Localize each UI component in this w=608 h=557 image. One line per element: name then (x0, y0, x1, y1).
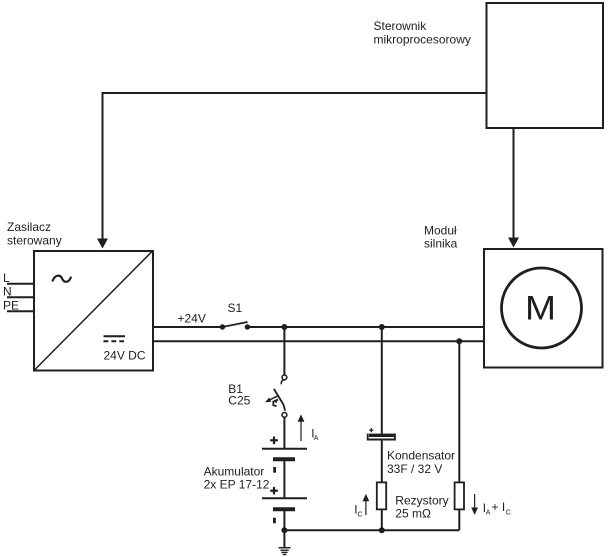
junction: left resistor / ground rail (379, 527, 385, 533)
svg-text:M: M (525, 289, 556, 327)
svg-text:2x EP 17-12: 2x EP 17-12 (204, 478, 270, 492)
wire: controller to power supply, horizontal segment (102, 92, 488, 94)
wire: controller to motor module, vertical segment with arrowhead (508, 128, 519, 248)
pin L with terminal line (3, 271, 35, 285)
svg-text:25 mΩ: 25 mΩ (395, 506, 431, 520)
label: Modul silnika (424, 224, 458, 251)
breaker B1 (C25) (265, 375, 287, 417)
junction: +24V rail / breaker branch (281, 324, 287, 330)
polarity marks: + and - of cell 2 (270, 487, 278, 523)
svg-text:Akumulator: Akumulator (204, 464, 265, 478)
junction: return rail / right resistor branch (456, 338, 462, 344)
junction: battery / ground rail (281, 527, 287, 533)
label: B1 / C25 (228, 382, 250, 407)
wire: breaker B1 to battery (283, 417, 285, 448)
svg-text:sterowany: sterowany (7, 234, 62, 248)
current arrow IA+IC (down) (471, 494, 511, 517)
switch S1 (220, 322, 250, 330)
current arrow IC (up) (354, 494, 369, 519)
wire: battery to ground junction (283, 511, 285, 548)
svg-text:Kondensator: Kondensator (387, 448, 455, 462)
wire: controller to power supply, vertical segment with arrowhead (97, 92, 108, 249)
symbol: DC lines inside PSU (104, 336, 126, 341)
capacitor C1 (polarized, Kondensator 33F/32V) (368, 428, 395, 439)
svg-text:C25: C25 (228, 393, 250, 407)
block M1 Modul silnika (motor module box) (484, 249, 603, 368)
svg-text:24V DC: 24V DC (104, 349, 146, 363)
svg-text:Rezystory: Rezystory (395, 493, 448, 507)
wire: capacitor to left resistor R1 (381, 440, 383, 482)
wire: ground rail horizontal (284, 529, 459, 531)
block PSU Zasilacz sterowany (controlled power supply box) (34, 251, 153, 371)
wire: return rail, PSU to motor module (152, 340, 484, 342)
svg-text:A: A (486, 510, 491, 517)
svg-text:Sterownik: Sterownik (374, 19, 428, 33)
wire: +24V rail, S1 to motor module (247, 326, 484, 328)
pin N with terminal line (3, 285, 35, 299)
label: Kondensator 33F / 32 V (387, 448, 455, 476)
wire: +24V rail down to breaker B1 (283, 327, 285, 375)
wire: return rail down to right resistor R2 (458, 341, 460, 482)
resistor R2 (25 mOhm, right) (455, 482, 464, 509)
battery BT1 Akumulator 2x EP 17-12 (262, 449, 307, 510)
current arrow IA (up) (298, 414, 319, 442)
svg-text:C: C (506, 510, 511, 517)
wire: right resistor to ground rail (458, 510, 460, 531)
label: Sterownik mikroprocesorowy (374, 19, 471, 47)
svg-text:Moduł: Moduł (424, 224, 457, 238)
pin PE with terminal line (3, 298, 35, 312)
svg-text:S1: S1 (228, 301, 243, 315)
svg-text:+24V: +24V (178, 312, 206, 326)
wire: +24V rail down to capacitor C1 (381, 327, 383, 434)
polarity marks: + and - of cell 1 (270, 437, 278, 473)
svg-text:33F / 32 V: 33F / 32 V (387, 462, 442, 476)
label: Rezystory 25 mOhm (395, 493, 448, 520)
svg-text:+ I: + I (492, 500, 506, 514)
block U1 Sterownik mikroprocesorowy (microprocessor controller box) (487, 3, 604, 128)
svg-text:silnika: silnika (424, 237, 458, 251)
wire: +24V rail, PSU to switch S1 (152, 326, 222, 328)
label: Akumulator 2x EP 17-12 (204, 464, 270, 491)
ground symbol (279, 548, 291, 555)
svg-text:Zasilacz: Zasilacz (7, 220, 51, 234)
svg-text:mikroprocesorowy: mikroprocesorowy (374, 33, 471, 47)
wire: left resistor to ground rail (381, 510, 383, 531)
symbol: AC tilde inside PSU (53, 276, 71, 282)
junction: +24V rail / capacitor branch (379, 324, 385, 330)
label: Zasilacz sterowany (7, 220, 62, 248)
svg-text:C: C (358, 511, 363, 518)
motor M symbol (circle with M) (502, 268, 582, 348)
resistor R1 (25 mOhm, left) (377, 482, 386, 509)
svg-text:A: A (314, 435, 319, 442)
